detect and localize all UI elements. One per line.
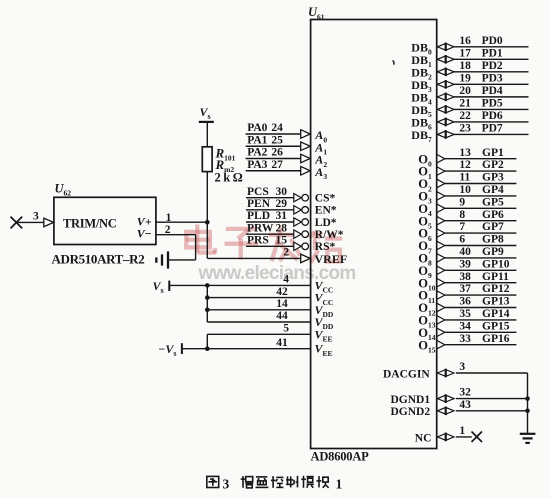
svg-text:10: 10 (459, 184, 471, 196)
pin 30 PCS / active-low input CS* (246, 186, 336, 205)
wire: node to VREF pin (207, 257, 301, 259)
label AD8600AP (311, 450, 370, 464)
pin 29 PEN / active-low input EN* (246, 198, 337, 217)
label TRIM/NC (63, 216, 117, 230)
svg-text:40: 40 (459, 246, 471, 258)
pin 11 GP3 / output O2 (418, 172, 516, 194)
svg-text:DGND2: DGND2 (391, 406, 431, 418)
svg-text:23: 23 (459, 123, 471, 135)
svg-text:GP10: GP10 (482, 258, 510, 270)
IC U62 body (TRIM/NC block) (54, 197, 156, 244)
svg-text:35: 35 (459, 308, 471, 320)
pin 16 PD0 / data bus DB0 (bidirectional) (411, 35, 528, 57)
pin arrow VREF (301, 254, 311, 263)
svg-text:TRIM/NC: TRIM/NC (63, 216, 117, 230)
pin 8 GP6 / output O5 (418, 209, 516, 231)
svg-text:8: 8 (459, 209, 465, 221)
pin 42 VCC (207, 286, 333, 307)
pin arrow into U62 (pin 3) (44, 218, 54, 227)
svg-text:PD4: PD4 (482, 85, 503, 97)
junction: V+ / R101 / VREF node (205, 220, 210, 225)
svg-text:2: 2 (283, 247, 289, 259)
pin 35 GP14 / output O13 (418, 308, 516, 330)
svg-text:27: 27 (271, 159, 283, 171)
svg-text:21: 21 (459, 98, 471, 110)
svg-text:GP5: GP5 (482, 196, 504, 208)
pin 31 PLD / active-low input LD* (246, 210, 337, 229)
svg-text:PA3: PA3 (247, 159, 267, 171)
pin 6 GP8 / output O7 (418, 234, 516, 256)
svg-text:GP11: GP11 (482, 271, 509, 283)
pin label VREF (315, 252, 348, 266)
pin 27 PA3 / input A3 (246, 159, 328, 181)
junction DGND1/ground rail (525, 396, 530, 401)
svg-text:16: 16 (459, 35, 471, 47)
resistor R101 body (202, 147, 212, 172)
pin 1 NC (415, 425, 472, 444)
svg-text:42: 42 (276, 286, 288, 298)
wire: V− down segment (195, 235, 197, 260)
label Rm2 (215, 157, 235, 174)
pin 17 PD1 / data bus DB1 (bidirectional) (411, 47, 528, 69)
svg-text:41: 41 (276, 337, 288, 349)
svg-text:39: 39 (459, 258, 471, 270)
svg-text:5: 5 (283, 323, 289, 335)
svg-text:15: 15 (276, 235, 288, 247)
power symbol −Vs (159, 342, 177, 358)
wire: Vs bar to R101 (206, 122, 208, 147)
IC U61 body (AD8600AP) (311, 20, 437, 449)
svg-text:VEE: VEE (315, 342, 333, 358)
svg-text:14: 14 (276, 298, 288, 310)
svg-text:31: 31 (276, 210, 288, 222)
pin 41 VEE (182, 337, 333, 358)
wire: V− to ground symbol (168, 259, 196, 261)
svg-text:PD7: PD7 (482, 123, 503, 135)
svg-text:24: 24 (271, 122, 283, 134)
svg-text:29: 29 (276, 198, 288, 210)
svg-text:PD1: PD1 (482, 47, 503, 59)
junction −Vs/VEE pin41 (205, 346, 210, 351)
svg-text:NC: NC (415, 432, 432, 444)
svg-text:13: 13 (459, 147, 471, 159)
svg-text:4: 4 (283, 274, 289, 286)
pin 20 PD4 / data bus DB4 (bidirectional) (411, 85, 528, 107)
label V+ (U62 output) (137, 214, 152, 228)
svg-text:38: 38 (459, 271, 471, 283)
svg-text:PCS: PCS (247, 186, 269, 198)
pin 12 GP2 / output O1 (418, 159, 516, 181)
svg-text:R/W*: R/W* (315, 229, 344, 241)
no-connect X on NC pin (472, 432, 483, 443)
svg-text:44: 44 (276, 310, 288, 322)
svg-text:PD2: PD2 (482, 60, 503, 72)
caption 图3 增益控制模块1 (207, 476, 343, 492)
svg-text:17: 17 (459, 47, 471, 59)
svg-text:VREF: VREF (315, 252, 348, 266)
svg-text:1: 1 (459, 425, 465, 437)
svg-text:34: 34 (459, 320, 471, 332)
svg-text:43: 43 (459, 399, 471, 411)
svg-text:GP15: GP15 (482, 320, 510, 332)
input terminal X (left) (11, 217, 23, 229)
pin 44 VDD (207, 310, 334, 331)
svg-text:Vs: Vs (200, 105, 211, 121)
pin 3 DACGIN (383, 361, 528, 380)
stray mark (scan speck) (393, 61, 395, 65)
svg-text:2 k Ω: 2 k Ω (215, 171, 243, 185)
svg-text:PLD: PLD (247, 210, 270, 222)
svg-text:V−: V− (137, 227, 152, 241)
svg-text:LD*: LD* (315, 217, 337, 229)
svg-text:PD0: PD0 (482, 35, 503, 47)
svg-text:11: 11 (459, 172, 470, 184)
label U61 (308, 5, 325, 21)
pin 26 PA2 / input A2 (246, 147, 328, 169)
svg-text:PRS: PRS (247, 235, 269, 247)
junction VDD pin14 (205, 308, 210, 313)
svg-text:GP16: GP16 (482, 333, 510, 345)
svg-text:RS*: RS* (315, 241, 336, 253)
Vs feed tick (168, 281, 170, 291)
svg-text:GP8: GP8 (482, 234, 504, 246)
pin number 2 (U62 V−) (165, 224, 171, 236)
label ADR510ART-R2 (52, 251, 145, 266)
pin 10 GP4 / output O3 (418, 184, 516, 206)
wire: −Vs rail vertical (206, 334, 208, 348)
svg-text:26: 26 (271, 147, 283, 159)
svg-text:GP9: GP9 (482, 246, 504, 258)
wire: U62 V+ to VREF node (156, 221, 207, 223)
svg-text:PA2: PA2 (247, 147, 267, 159)
pin 24 PA0 / input A0 (246, 122, 328, 144)
pin number 1 (U62 V+) (166, 212, 172, 224)
pin 25 PA1 / input A1 (246, 134, 328, 156)
svg-text:1: 1 (336, 477, 343, 492)
label U62 (55, 182, 72, 198)
svg-text:Vs: Vs (153, 279, 164, 295)
svg-text:U61: U61 (308, 5, 325, 21)
svg-text:GP4: GP4 (482, 184, 504, 196)
svg-text:25: 25 (271, 134, 283, 146)
svg-text:3: 3 (33, 211, 39, 223)
pin 22 PD6 / data bus DB6 (bidirectional) (411, 110, 528, 132)
svg-text:28: 28 (276, 222, 288, 234)
svg-text:GP7: GP7 (482, 221, 504, 233)
pin 36 GP13 / output O12 (418, 296, 516, 318)
ground symbol (U62, sideways) (156, 251, 168, 268)
svg-text:GP14: GP14 (482, 308, 510, 320)
label R101 (215, 146, 236, 163)
Vs top bar (199, 121, 214, 123)
watermark: red elecfans hanzi (186, 225, 342, 263)
svg-text:−Vs: −Vs (159, 342, 177, 358)
power symbol Vs (top) (200, 105, 211, 121)
ground symbol (digital ground) (520, 434, 536, 443)
svg-text:36: 36 (459, 296, 471, 308)
pin 21 PD5 / data bus DB5 (bidirectional) (411, 98, 528, 120)
svg-text:37: 37 (459, 283, 471, 295)
svg-text:20: 20 (459, 85, 471, 97)
pin 40 GP9 / output O8 (418, 246, 516, 268)
wire: U62 V− right segment (156, 234, 196, 236)
svg-text:18: 18 (459, 60, 471, 72)
junction VCC pin42 (205, 295, 210, 300)
svg-text:9: 9 (459, 196, 465, 208)
svg-text:ADR510ART–R2: ADR510ART–R2 (52, 251, 145, 266)
pin 19 PD3 / data bus DB3 (bidirectional) (411, 72, 528, 94)
pin 33 GP16 / output O15 (418, 333, 516, 355)
svg-text:PEN: PEN (247, 198, 271, 210)
pin 14 VDD (207, 298, 334, 319)
svg-text:GP1: GP1 (482, 147, 504, 159)
svg-text:EN*: EN* (315, 205, 337, 217)
svg-text:PD3: PD3 (482, 72, 503, 84)
watermark: www.elecfans.com (198, 263, 356, 284)
pin 28 PRW / active-low input R/W* (246, 222, 344, 241)
svg-text:www.elecians.com: www.elecians.com (198, 263, 356, 284)
pin 18 PD2 / data bus DB2 (bidirectional) (411, 60, 528, 82)
wire: VREF node down (206, 222, 208, 258)
value label 2 kΩ (215, 171, 243, 185)
svg-text:7: 7 (459, 221, 465, 233)
pin number 2 (VREF) (283, 247, 289, 259)
svg-text:AD8600AP: AD8600AP (311, 450, 370, 464)
svg-text:19: 19 (459, 72, 471, 84)
svg-text:GP6: GP6 (482, 209, 504, 221)
svg-text:PD5: PD5 (482, 98, 503, 110)
pin 39 GP10 / output O9 (418, 258, 516, 280)
svg-text:GP2: GP2 (482, 159, 504, 171)
svg-text:33: 33 (459, 333, 471, 345)
power symbol Vs (supply feed) (153, 279, 164, 295)
pin 4 VCC (169, 274, 333, 295)
pin 43 DGND2 (391, 399, 528, 418)
pin 38 GP11 / output O10 (418, 271, 516, 293)
pin 13 GP1 / output O0 (418, 147, 516, 169)
svg-text:12: 12 (459, 159, 471, 171)
pin 9 GP5 / output O4 (418, 196, 516, 218)
svg-text:32: 32 (459, 387, 471, 399)
svg-text:DGND1: DGND1 (391, 394, 431, 406)
svg-text:PA1: PA1 (247, 134, 267, 146)
svg-text:PA0: PA0 (247, 122, 267, 134)
svg-text:PRW: PRW (247, 222, 274, 234)
svg-text:U62: U62 (55, 182, 72, 198)
label V− (U62 output) (137, 227, 152, 241)
junction Vs/VCC pin4 (205, 283, 210, 288)
pin 34 GP15 / output O14 (418, 320, 516, 342)
svg-text:CS*: CS* (315, 193, 336, 205)
−Vs feed tick (181, 343, 183, 354)
svg-text:22: 22 (459, 110, 471, 122)
wire: R101 to VREF node (206, 172, 208, 223)
svg-text:GP13: GP13 (482, 296, 510, 308)
pin 32 DGND1 (391, 387, 528, 406)
svg-text:30: 30 (276, 186, 288, 198)
svg-text:6: 6 (459, 234, 465, 246)
svg-text:3: 3 (223, 477, 230, 492)
pin 5 VEE (207, 323, 332, 344)
pin 15 PRS / active-low input RS* (246, 235, 336, 254)
pin 23 PD7 / data bus DB7 (bidirectional) (411, 123, 528, 145)
pin 7 GP7 / output O6 (418, 221, 516, 243)
wire: Vs rail vertical (206, 285, 208, 322)
svg-text:DACGIN: DACGIN (383, 368, 430, 380)
svg-text:PD6: PD6 (482, 110, 503, 122)
wire: X to U62 pin 3 (16, 221, 44, 223)
pin number 3 (U62 TRIM input) (33, 211, 39, 223)
svg-text:GP3: GP3 (482, 172, 504, 184)
svg-text:GP12: GP12 (482, 283, 510, 295)
junction DGND2/ground rail (525, 409, 530, 414)
svg-text:3: 3 (459, 361, 465, 373)
pin 37 GP12 / output O11 (418, 283, 516, 305)
wire: DACGIN to ground rail (527, 373, 529, 433)
